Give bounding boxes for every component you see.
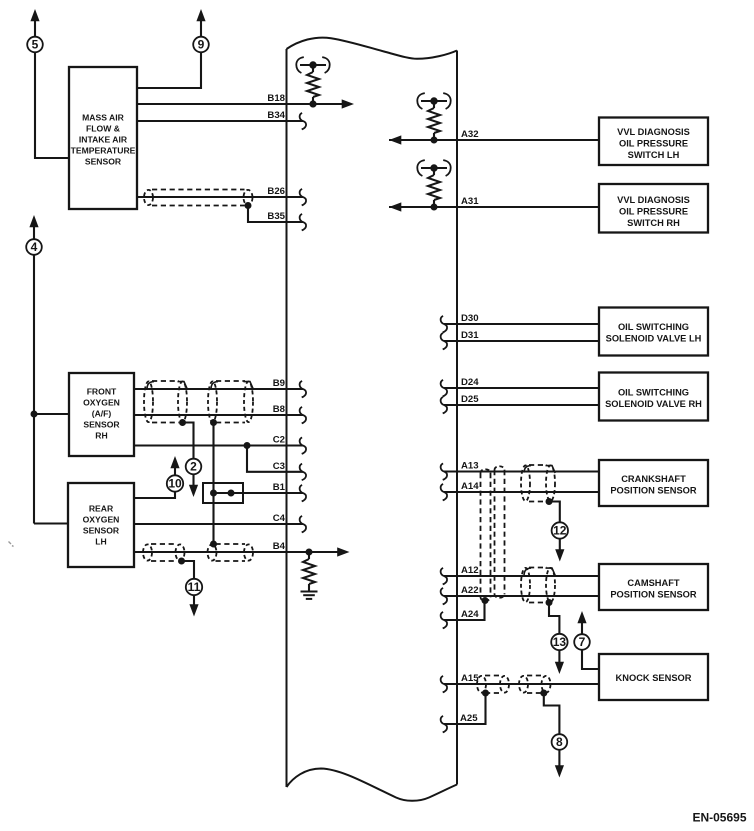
wire B18 with right arrow (137, 103, 344, 105)
svg-text:FRONT: FRONT (87, 387, 117, 397)
svg-text:A31: A31 (461, 196, 479, 207)
shield drain dot on first B4 shield (178, 558, 185, 565)
svg-text:12: 12 (553, 524, 567, 538)
svg-text:B9: B9 (273, 378, 285, 389)
wire branch to FRONT OXYGEN sensor (34, 413, 69, 415)
break symbol on B9 (300, 381, 306, 398)
break symbol on A24 (441, 612, 447, 629)
wire from shield drain to connector 2 (183, 423, 194, 460)
junction dot inside B1 box (right) (228, 490, 235, 497)
svg-text:INTAKE AIR: INTAKE AIR (79, 134, 128, 144)
svg-text:OIL SWITCHING: OIL SWITCHING (618, 388, 689, 398)
break symbol on A12 (441, 568, 447, 585)
component MASS AIR FLOW & INTAKE AIR TEMPERATURE SENSOR box (69, 67, 137, 209)
wire B8 (134, 414, 303, 416)
resistor pull-up on A32 (431, 137, 438, 144)
wire A13 (444, 470, 599, 472)
wire A22 (444, 595, 599, 597)
svg-text:13: 13 (553, 635, 567, 649)
svg-text:2: 2 (190, 460, 197, 474)
svg-text:C3: C3 (273, 461, 285, 472)
connector 5 circle with up arrow (34, 20, 36, 37)
svg-text:OXYGEN: OXYGEN (83, 398, 120, 408)
svg-text:POSITION SENSOR: POSITION SENSOR (610, 590, 697, 600)
svg-text:VVL DIAGNOSIS: VVL DIAGNOSIS (617, 127, 690, 137)
break symbol on D24 (441, 380, 447, 397)
svg-text:D30: D30 (461, 313, 479, 324)
component VVL DIAGNOSIS OIL PRESSURE SWITCH RH box (599, 184, 708, 233)
wire A12 (444, 575, 599, 577)
svg-text:POSITION SENSOR: POSITION SENSOR (610, 486, 697, 496)
wire from A13/A14 shield drain to connector 12 (549, 502, 560, 523)
svg-text:OIL PRESSURE: OIL PRESSURE (619, 139, 688, 149)
wire D25 (444, 404, 599, 406)
wire from connector 4 down the left side (33, 255, 35, 524)
break symbol on A25 (441, 716, 447, 733)
shield (dashed) around B9/B8 first segment (152, 380, 179, 382)
component OIL SWITCHING SOLENOID VALVE LH box (599, 308, 708, 356)
break symbol on D30 (441, 316, 447, 333)
shield drain dot at right end of A12/A22 shield (546, 599, 553, 606)
svg-text:SENSOR: SENSOR (83, 420, 120, 430)
wire B1 (214, 492, 304, 494)
svg-text:SOLENOID VALVE RH: SOLENOID VALVE RH (605, 399, 702, 409)
svg-text:A14: A14 (461, 481, 479, 492)
tall shield (dashed) between crank and cam sensor wires, right (494, 470, 496, 594)
svg-text:LH: LH (95, 537, 106, 547)
wire A31 with left arrow into ECM (389, 206, 599, 208)
svg-text:RH: RH (95, 431, 107, 441)
svg-text:11: 11 (188, 580, 201, 594)
svg-text:OIL SWITCHING: OIL SWITCHING (618, 322, 689, 332)
wire from A15 shield drain to connector 8 (544, 693, 560, 735)
wire A25 from shield drain (444, 693, 486, 724)
break symbol on B34 (300, 113, 306, 129)
junction dot on left wire (31, 411, 38, 418)
svg-text:REAR: REAR (89, 504, 114, 514)
svg-text:VVL DIAGNOSIS: VVL DIAGNOSIS (617, 195, 690, 205)
break symbol on C2 (300, 437, 306, 454)
component VVL DIAGNOSIS OIL PRESSURE SWITCH LH box (599, 118, 708, 166)
shield drain dot on first A15 shield (482, 690, 489, 697)
component KNOCK SENSOR box (599, 654, 708, 700)
break symbol on D25 (441, 397, 447, 414)
shield (dashed) around A15 first segment (485, 675, 501, 677)
svg-text:B34: B34 (267, 110, 285, 121)
svg-text:10: 10 (168, 477, 182, 491)
svg-text:TEMPERATURE: TEMPERATURE (71, 145, 136, 155)
wire from connector 5 to MASS AIR sensor (35, 52, 69, 158)
wire A14 (444, 491, 599, 493)
svg-text:EN-05695: EN-05695 (692, 811, 746, 825)
break symbol on A13 (441, 463, 447, 480)
break symbol on A15 (441, 676, 447, 693)
shield (dashed) around B4 first segment (151, 543, 177, 545)
connector 13 circle with down arrow (551, 634, 567, 650)
svg-text:5: 5 (32, 38, 39, 52)
svg-text:B8: B8 (273, 404, 286, 415)
svg-text:SWITCH LH: SWITCH LH (628, 150, 680, 160)
svg-text:OXYGEN: OXYGEN (83, 515, 120, 525)
wire B4 with right arrow (134, 551, 339, 553)
shield drain dot on second B9/B8 shield (210, 419, 217, 426)
wire B34 (137, 120, 303, 122)
resistor pull-up on A31 (431, 204, 438, 211)
connector 8 circle with down arrow (552, 734, 568, 750)
connector 4 circle with up arrow (33, 226, 35, 239)
shield drain dot at left end of A12/A22 shield (482, 597, 489, 604)
wire C2 (134, 444, 303, 446)
wire B26 (137, 196, 303, 198)
component FRONT OXYGEN (A/F) SENSOR RH box (69, 373, 134, 456)
component REAR OXYGEN SENSOR LH box (68, 483, 134, 567)
junction dot on B4 (306, 549, 313, 556)
svg-text:B1: B1 (273, 482, 286, 493)
junction dot on B18 (310, 101, 317, 108)
svg-text:D25: D25 (461, 394, 479, 405)
shield (dashed) around B26 (152, 189, 245, 191)
svg-text:SWITCH RH: SWITCH RH (627, 218, 680, 228)
svg-text:B26: B26 (267, 186, 285, 197)
svg-text:A25: A25 (460, 713, 478, 724)
svg-text:B35: B35 (267, 211, 285, 222)
ECM boundary wavy bottom edge (287, 769, 458, 801)
svg-text:4: 4 (31, 240, 38, 254)
break symbol on B35 (300, 214, 306, 231)
ground symbol (301, 591, 318, 593)
break symbol on B1 (300, 485, 306, 502)
svg-text:SENSOR: SENSOR (83, 526, 120, 536)
shield drain dot on second A15 shield (540, 690, 547, 697)
ECM boundary right edge (vertical bus line) (456, 51, 458, 785)
resistor from B4 to ground (308, 552, 310, 559)
svg-text:8: 8 (556, 735, 563, 749)
connector 2 circle with down arrow (186, 459, 202, 475)
connector 9 circle with up arrow (200, 20, 202, 37)
wire from second shield down through B1 junction box (212, 423, 214, 545)
break symbol on C3 (300, 464, 306, 481)
wire from A12/A22 shield drain to connector 13 (549, 603, 559, 635)
wire B35 from shield drain (248, 206, 303, 223)
component CAMSHAFT POSITION SENSOR box (599, 564, 708, 610)
svg-text:A13: A13 (461, 461, 479, 472)
break symbol on A22 (441, 588, 447, 605)
scan speck artifact (9, 542, 14, 547)
svg-text:A22: A22 (461, 585, 479, 596)
svg-text:C4: C4 (273, 513, 286, 524)
wire A15 (444, 683, 599, 685)
wire into REAR OXYGEN sensor (34, 522, 68, 524)
svg-text:C2: C2 (273, 435, 285, 446)
shield drain dot on A13/A14 shield (546, 498, 553, 505)
shield connection dot on second B4 shield (210, 541, 217, 548)
svg-text:A32: A32 (461, 129, 479, 140)
wire D31 (444, 340, 599, 342)
wire B9 (134, 388, 303, 390)
break symbol on C4 (300, 516, 306, 533)
svg-text:CRANKSHAFT: CRANKSHAFT (621, 474, 686, 484)
wire C3 branch from C2 (247, 446, 303, 472)
svg-text:CAMSHAFT: CAMSHAFT (627, 578, 679, 588)
break symbol on B26 (300, 189, 306, 206)
connector 7 circle with up arrow (581, 622, 583, 634)
connector 10 circle with up arrow (174, 468, 176, 476)
svg-text:OIL PRESSURE: OIL PRESSURE (619, 207, 688, 217)
svg-text:B18: B18 (267, 93, 285, 104)
svg-text:D31: D31 (461, 330, 479, 341)
break symbol on B8 (300, 407, 306, 424)
ECM boundary left edge (vertical bus line) (286, 49, 288, 787)
svg-text:B4: B4 (273, 541, 286, 552)
shield (dashed) around A12/A22 (529, 567, 547, 569)
wire from B4 shield drain to connector 11 (182, 561, 195, 579)
tall shield (dashed) between crank and cam sensor wires, left (480, 473, 482, 597)
wire D24 (444, 387, 599, 389)
wire from connector 7 to KNOCK SENSOR (582, 650, 599, 669)
svg-text:A24: A24 (461, 609, 479, 620)
shield (dashed) around B9/B8 second segment (216, 380, 245, 382)
connector 11 circle with down arrow (186, 579, 202, 595)
wire A32 with left arrow into ECM (389, 139, 599, 141)
svg-text:KNOCK SENSOR: KNOCK SENSOR (616, 673, 692, 683)
shield drain dot on first B9/B8 shield (179, 419, 186, 426)
svg-text:A12: A12 (461, 565, 479, 576)
component CRANKSHAFT POSITION SENSOR box (599, 460, 708, 506)
shield (dashed) around A13/A14 (529, 464, 547, 466)
svg-text:FLOW &: FLOW & (86, 123, 120, 133)
shield drain dot on B26 shield (245, 202, 252, 209)
component OIL SWITCHING SOLENOID VALVE RH box (599, 373, 708, 421)
wire from REAR OXYGEN sensor to connector 10 (134, 491, 175, 498)
junction box on B1 wire (203, 483, 243, 503)
wire C4 (134, 523, 303, 525)
svg-text:SOLENOID VALVE LH: SOLENOID VALVE LH (606, 334, 702, 344)
wire D30 (444, 323, 599, 325)
shield (dashed) around A15 second segment (527, 675, 543, 677)
connector 12 circle with down arrow (552, 522, 568, 538)
wire from MASS AIR sensor to connector 9 (137, 52, 201, 88)
svg-text:7: 7 (579, 635, 586, 649)
svg-text:MASS AIR: MASS AIR (82, 112, 124, 122)
break symbol on A14 (441, 484, 447, 501)
junction dot on C2 (244, 442, 251, 449)
svg-text:9: 9 (198, 38, 205, 52)
resistor pull-up on B18 to other-circuit bar (310, 101, 317, 108)
svg-text:(A/F): (A/F) (92, 409, 112, 419)
junction dot inside B1 box (left) (210, 490, 217, 497)
shield (dashed) around B4 second segment (216, 543, 246, 545)
wire A24 from shield drain (444, 601, 485, 621)
break symbol on D31 (441, 333, 447, 350)
ECM boundary wavy top edge (287, 38, 458, 59)
svg-text:SENSOR: SENSOR (85, 156, 122, 166)
svg-text:D24: D24 (461, 377, 479, 388)
